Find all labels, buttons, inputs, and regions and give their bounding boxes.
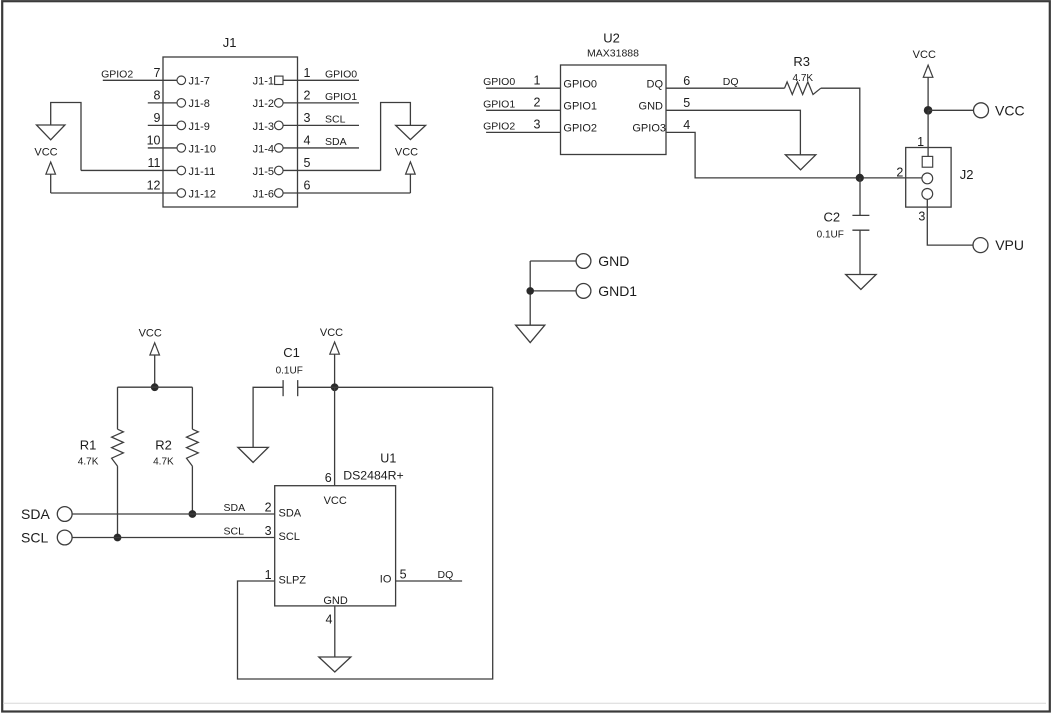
wire U2 GPIO3 to J2 pin 2 [666, 132, 922, 178]
junction node R1 SCL [114, 534, 122, 542]
svg-text:SCL: SCL [279, 531, 300, 543]
terminal VCC circle [974, 103, 989, 118]
svg-text:8: 8 [154, 88, 161, 102]
svg-text:GPIO1: GPIO1 [325, 91, 357, 103]
svg-text:GPIO2: GPIO2 [483, 120, 515, 132]
svg-text:3: 3 [265, 524, 272, 538]
power symbol VCC arrow above U1 [330, 342, 340, 354]
svg-text:0.1UF: 0.1UF [817, 229, 844, 240]
ground symbol GND [516, 325, 545, 342]
svg-text:12: 12 [147, 179, 161, 193]
svg-text:J1-5: J1-5 [253, 166, 274, 178]
J1 pin 5 circle [275, 166, 284, 175]
junction node VCC J2 pin1 [924, 106, 933, 115]
wire GPIO2 to J1 pin 7 [103, 79, 177, 81]
terminal GND1 circle [576, 284, 591, 299]
svg-text:GND: GND [598, 253, 629, 269]
resistor R3 body [785, 82, 821, 95]
J2 pin 2 circle [922, 173, 933, 184]
svg-text:2: 2 [896, 166, 903, 180]
svg-text:VCC: VCC [395, 146, 418, 158]
J2 pin 3 circle [922, 189, 933, 200]
power symbol VCC arrow top right [923, 65, 933, 77]
wire R1 R2 top rail [118, 386, 193, 388]
ic U1 box [275, 486, 396, 606]
wire U2 DQ to R3 [666, 87, 785, 89]
J1 pin 4 circle [275, 144, 284, 153]
svg-text:3: 3 [918, 210, 925, 224]
wire node to VCC terminal [928, 109, 973, 111]
svg-text:DQ: DQ [647, 78, 664, 90]
wire rail to R2 [191, 387, 193, 429]
svg-text:4.7K: 4.7K [78, 456, 99, 467]
svg-text:10: 10 [147, 134, 161, 148]
svg-text:VCC: VCC [913, 49, 936, 61]
svg-text:9: 9 [154, 111, 161, 125]
wire GND terminal to ground [530, 260, 576, 262]
power symbol VCC left arrow [46, 162, 56, 174]
wire SDA terminal to U1 pin 2 [72, 513, 275, 515]
wire U1 GND to ground [334, 606, 336, 657]
wire R1 to SCL net [117, 466, 119, 537]
svg-text:5: 5 [304, 156, 311, 170]
power symbol VCC left triangle [37, 125, 65, 140]
wire R3 to node [821, 88, 860, 178]
svg-text:DQ: DQ [723, 76, 739, 88]
svg-text:2: 2 [534, 96, 541, 110]
svg-text:1: 1 [534, 73, 541, 87]
J1 pin 1 square [275, 76, 283, 84]
svg-text:DS2484R+: DS2484R+ [343, 469, 404, 483]
wire stub J1 pin 10 [148, 147, 177, 149]
wire VCC rail to U1 pin 6 [334, 387, 336, 485]
J1 pin 7 circle [177, 76, 186, 85]
svg-text:C1: C1 [283, 345, 300, 360]
svg-text:1: 1 [304, 66, 311, 80]
wire VCC arrow to node [927, 77, 929, 110]
svg-text:SDA: SDA [279, 508, 302, 520]
wire J1 pin 1 to net GPIO0 [283, 79, 359, 81]
svg-text:SDA: SDA [21, 506, 50, 522]
svg-text:6: 6 [325, 471, 332, 485]
wire J1 pin 5 to VCC [283, 169, 381, 171]
wire U2 GND to ground [666, 110, 800, 155]
svg-text:U2: U2 [603, 30, 620, 45]
wire GND1 terminal to node [530, 290, 576, 292]
svg-text:J1-3: J1-3 [253, 121, 274, 133]
ground symbol below C2 [846, 275, 876, 290]
wire VCC arrow to node [154, 355, 156, 387]
svg-text:SDA: SDA [224, 502, 246, 514]
svg-text:J1-10: J1-10 [189, 143, 217, 155]
svg-text:J1: J1 [223, 35, 237, 50]
connector J1 box [163, 57, 298, 207]
terminal SDA circle [57, 507, 72, 522]
wire C1 left to ground elbow [253, 387, 283, 447]
J1 pin 12 circle [177, 189, 186, 198]
svg-text:R1: R1 [80, 437, 97, 452]
wire U1 SLPZ loop to VCC rail [238, 387, 493, 679]
svg-text:J1-2: J1-2 [253, 98, 274, 110]
svg-text:C2: C2 [823, 209, 840, 224]
wire VCC arrow stem right [409, 174, 411, 193]
svg-text:6: 6 [683, 74, 690, 88]
svg-text:MAX31888: MAX31888 [587, 48, 639, 60]
svg-text:R3: R3 [793, 54, 810, 69]
svg-text:J1-11: J1-11 [189, 166, 216, 178]
svg-text:VCC: VCC [139, 328, 162, 340]
svg-text:4.7K: 4.7K [153, 456, 174, 467]
J1 pin 6 circle [275, 189, 284, 198]
svg-text:VPU: VPU [995, 237, 1024, 253]
wire C1 to VCC rail [298, 386, 493, 388]
J1 pin 2 circle [275, 99, 284, 108]
svg-text:SCL: SCL [21, 530, 48, 546]
svg-text:GPIO2: GPIO2 [563, 123, 597, 135]
wire SCL terminal to U1 pin 3 [72, 537, 275, 539]
wire net GPIO2 to U2 pin 3 [486, 131, 560, 133]
J1 pin 11 circle [177, 166, 186, 175]
J1 pin 10 circle [177, 144, 186, 153]
svg-text:SCL: SCL [224, 526, 245, 538]
svg-text:J1-1: J1-1 [253, 76, 274, 88]
svg-text:GPIO1: GPIO1 [483, 98, 515, 110]
svg-text:0.1UF: 0.1UF [276, 365, 303, 376]
svg-text:5: 5 [683, 96, 690, 110]
resistor R2 body [187, 429, 199, 466]
wire J1 pin 6 to VCC [283, 192, 410, 194]
connector J2 box [906, 148, 951, 208]
svg-text:J1-6: J1-6 [253, 188, 274, 200]
J1 pin 3 circle [275, 121, 284, 130]
svg-text:GND1: GND1 [598, 283, 637, 299]
svg-text:IO: IO [380, 574, 392, 586]
power symbol VCC right triangle [396, 125, 426, 139]
svg-text:4: 4 [304, 134, 311, 148]
svg-text:2: 2 [304, 88, 311, 102]
svg-text:VCC: VCC [34, 146, 57, 158]
svg-text:SLPZ: SLPZ [279, 575, 307, 587]
svg-text:R2: R2 [155, 437, 172, 452]
wire J1 pin 4 to net SDA [283, 147, 359, 149]
svg-text:SCL: SCL [325, 113, 346, 125]
svg-text:4.7K: 4.7K [793, 73, 814, 84]
junction node R2 SDA [189, 510, 197, 518]
J2 pin 1 square [922, 156, 933, 167]
ground symbol below C1 [238, 447, 268, 462]
ground symbol below U1 [319, 657, 351, 672]
svg-text:J1-7: J1-7 [189, 76, 210, 88]
junction node GND GND1 [526, 287, 534, 295]
svg-text:DQ: DQ [438, 569, 454, 581]
wire net GPIO1 to U2 pin 2 [486, 109, 560, 111]
svg-text:3: 3 [534, 118, 541, 132]
junction node DQ C2 J2 [856, 174, 864, 182]
wire J1 pin 11 to VCC [81, 169, 177, 171]
wire node to J2 pin 1 [927, 110, 929, 156]
wire net GPIO0 to U2 pin 1 [486, 87, 560, 89]
svg-text:GPIO0: GPIO0 [325, 68, 357, 80]
svg-text:J1-9: J1-9 [189, 121, 210, 133]
wire VCC arrow stem left [50, 174, 52, 193]
wire C2 to ground [859, 230, 861, 274]
svg-text:GPIO0: GPIO0 [483, 76, 515, 88]
svg-text:VCC: VCC [320, 327, 343, 339]
wire J2 pin 3 to VPU terminal [927, 199, 973, 245]
svg-text:4: 4 [683, 118, 690, 132]
wire U1 IO to DQ net [396, 580, 463, 582]
svg-text:5: 5 [400, 568, 407, 582]
wire stub J1 pin 9 [148, 124, 177, 126]
junction node R1 R2 VCC [151, 383, 159, 391]
terminal GND circle [576, 254, 591, 269]
wire VCC arrow to node [334, 354, 336, 387]
svg-text:J2: J2 [960, 167, 974, 182]
J1 pin 8 circle [177, 99, 186, 108]
wire VCC riser left [51, 103, 81, 171]
svg-text:7: 7 [154, 66, 161, 80]
capacitor C1 plates [282, 380, 284, 396]
wire J1 pin 12 to VCC [51, 192, 177, 194]
wire ground riser [529, 261, 531, 325]
svg-text:GPIO2: GPIO2 [101, 68, 133, 80]
svg-text:GPIO3: GPIO3 [632, 123, 666, 135]
wire J1 pin 2 to net GPIO1 [283, 102, 359, 104]
svg-text:U1: U1 [380, 452, 396, 466]
svg-text:VCC: VCC [995, 102, 1025, 118]
wire VCC riser right [381, 103, 411, 171]
svg-text:SDA: SDA [325, 136, 347, 148]
junction node C1 VCC U1 [331, 383, 339, 391]
ground symbol below U2 [785, 155, 815, 170]
ic U2 box [561, 65, 667, 155]
svg-text:3: 3 [304, 111, 311, 125]
svg-text:J1-4: J1-4 [253, 143, 274, 155]
svg-text:GND: GND [323, 595, 348, 607]
svg-text:2: 2 [265, 501, 272, 515]
svg-text:6: 6 [304, 179, 311, 193]
wire stub J1 pin 8 [148, 102, 177, 104]
wire node to C2 [859, 178, 861, 216]
wire rail to R1 [117, 387, 119, 429]
svg-text:GPIO0: GPIO0 [563, 78, 597, 90]
svg-text:4: 4 [325, 613, 332, 627]
svg-text:1: 1 [917, 135, 924, 149]
svg-text:VCC: VCC [324, 495, 347, 507]
wire J1 pin 3 to net SCL [283, 124, 359, 126]
terminal SCL circle [57, 530, 72, 545]
power symbol VCC right arrow [406, 162, 416, 174]
svg-text:GPIO1: GPIO1 [563, 101, 597, 113]
terminal VPU circle [973, 238, 988, 253]
svg-text:J1-12: J1-12 [189, 188, 217, 200]
svg-text:11: 11 [148, 156, 161, 170]
wire R2 to SDA net [191, 466, 193, 514]
resistor R1 body [112, 429, 124, 466]
J1 pin 9 circle [177, 121, 186, 130]
svg-text:GND: GND [639, 101, 664, 113]
svg-text:J1-8: J1-8 [189, 98, 210, 110]
svg-text:1: 1 [265, 568, 272, 582]
power symbol VCC arrow above R1 R2 [150, 343, 160, 355]
capacitor C2 plates [852, 214, 869, 216]
